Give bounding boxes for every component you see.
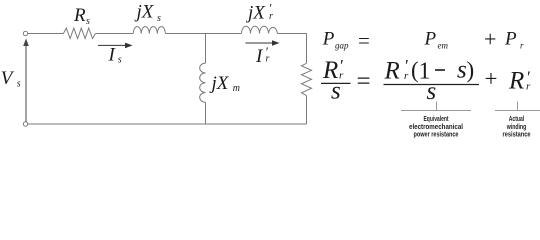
svg-text:=: = <box>357 68 371 95</box>
fraction bar LHS <box>321 82 351 84</box>
svg-text:+: + <box>485 66 498 91</box>
svg-text:r: r <box>520 41 524 51</box>
wire between Rs and jXs <box>96 33 134 35</box>
svg-text:jX: jX <box>134 2 155 23</box>
svg-text:r: r <box>269 11 273 22</box>
resistor R1 (Rs) <box>63 28 95 38</box>
svg-text:I: I <box>255 46 264 67</box>
svg-text:P: P <box>424 29 437 50</box>
wire bottom <box>28 123 307 125</box>
wire right branch lower <box>306 96 308 124</box>
voltage arrow Vs <box>23 39 29 122</box>
svg-text:s: s <box>118 55 122 66</box>
svg-text:): ) <box>467 58 475 83</box>
inductor L1 (jXs) <box>133 27 165 34</box>
svg-text:s: s <box>331 78 341 105</box>
svg-text:r: r <box>404 70 409 82</box>
svg-text:r: r <box>266 54 270 65</box>
wire middle branch lower <box>205 102 207 124</box>
current arrow Is <box>98 43 133 49</box>
underbrace actual winding resistance <box>495 102 540 111</box>
svg-text:I: I <box>108 45 117 66</box>
svg-text:winding: winding <box>506 124 526 131</box>
svg-text:Actual: Actual <box>509 116 525 123</box>
svg-text:s: s <box>427 78 437 105</box>
svg-text:jX: jX <box>209 73 230 94</box>
svg-text:Equivalent: Equivalent <box>424 116 449 123</box>
svg-text:gap: gap <box>335 41 349 51</box>
svg-text:R: R <box>508 68 524 95</box>
svg-text:s: s <box>17 79 21 90</box>
svg-text:s: s <box>157 13 161 24</box>
svg-text:s: s <box>86 16 90 27</box>
svg-text:R: R <box>73 5 86 26</box>
fraction bar RHS <box>384 84 480 86</box>
inductor L3 (jXm) <box>200 63 206 102</box>
underbrace equivalent resistance <box>401 102 471 111</box>
current arrow I'r <box>246 40 280 46</box>
svg-text:r: r <box>526 81 531 93</box>
wire top-right segment <box>277 33 306 35</box>
terminal top-left <box>23 31 27 35</box>
wire top-left segment <box>28 33 64 35</box>
wire right branch upper <box>306 34 308 64</box>
svg-text:P: P <box>504 29 517 50</box>
svg-text:electromechanical: electromechanical <box>409 124 463 131</box>
svg-text:em: em <box>438 41 449 51</box>
svg-text:jX: jX <box>245 3 266 24</box>
svg-text:V: V <box>1 68 15 89</box>
svg-text:P: P <box>322 29 335 50</box>
svg-text:+: + <box>484 27 496 52</box>
svg-text:power resistance: power resistance <box>414 131 459 138</box>
svg-text:m: m <box>233 83 240 94</box>
svg-text:=: = <box>358 29 370 53</box>
resistor R2 (R'r/s) <box>302 63 312 95</box>
wire between jXs and jX'r <box>165 33 241 35</box>
svg-text:s: s <box>457 57 467 84</box>
svg-text:R: R <box>384 57 400 84</box>
wire middle branch upper <box>205 34 207 64</box>
inductor L2 (jX'r) <box>242 26 278 33</box>
terminal bottom-left <box>23 122 27 126</box>
svg-text:resistance: resistance <box>503 131 531 138</box>
